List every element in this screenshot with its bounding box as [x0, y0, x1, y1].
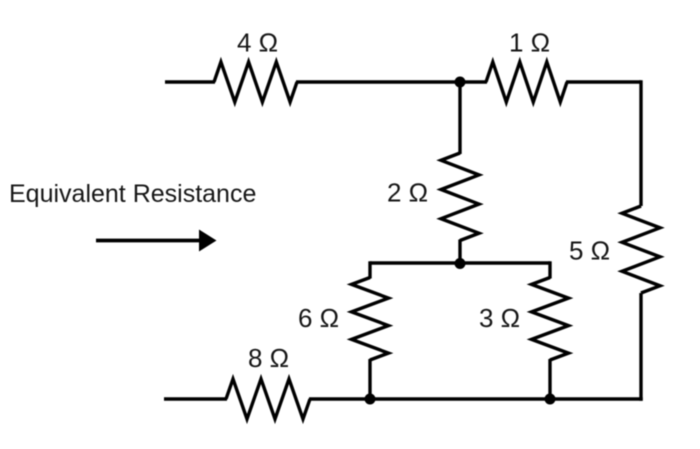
wire 6ohm top lead — [368, 261, 371, 278]
arrow head — [199, 230, 217, 252]
resistor R 8ohm — [226, 379, 310, 419]
arrow shaft — [96, 239, 202, 243]
wire right lower — [639, 293, 642, 401]
svg-text:Equivalent Resistance: Equivalent Resistance — [9, 180, 256, 208]
node junction B middle — [455, 258, 466, 269]
wire middle horizontal — [370, 261, 550, 264]
svg-text:3 Ω: 3 Ω — [479, 303, 520, 333]
svg-text:8 Ω: 8 Ω — [248, 343, 289, 373]
svg-text:1 Ω: 1 Ω — [509, 28, 550, 58]
node junction D bottom-right — [545, 394, 556, 405]
wire 2ohm bottom lead — [458, 240, 461, 264]
wire 2ohm top lead — [458, 82, 461, 154]
wire top middle — [296, 80, 487, 83]
wire 6ohm bottom lead — [368, 359, 371, 399]
node junction A top — [455, 77, 466, 88]
wire 3ohm bottom lead — [548, 359, 551, 399]
wire right upper — [639, 80, 642, 206]
wire top-left lead — [165, 80, 215, 83]
wire bottom-left lead — [164, 397, 227, 400]
resistor R 6ohm — [352, 278, 389, 361]
svg-text:6 Ω: 6 Ω — [298, 303, 339, 333]
svg-text:4 Ω: 4 Ω — [237, 27, 278, 57]
svg-text:2 Ω: 2 Ω — [387, 178, 428, 208]
resistor R 5ohm — [622, 206, 660, 293]
wire top right — [566, 80, 641, 83]
svg-text:5 Ω: 5 Ω — [569, 236, 610, 266]
resistor R 3ohm — [532, 278, 569, 361]
resistor R 2ohm — [441, 153, 479, 241]
wire bottom — [309, 397, 643, 400]
resistor R 4ohm — [214, 62, 297, 102]
wire 3ohm top lead — [548, 261, 551, 278]
resistor R 1ohm — [486, 62, 567, 102]
node junction C bottom-left — [365, 394, 376, 405]
